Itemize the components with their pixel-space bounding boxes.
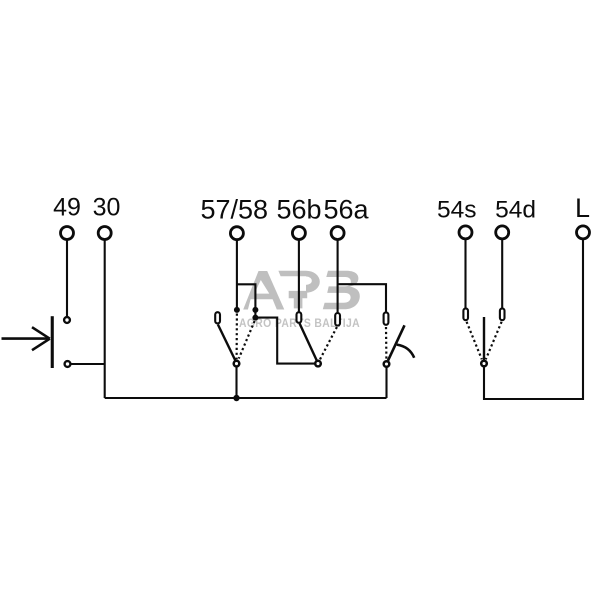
pivot2 ring [315, 361, 321, 367]
svg-text:54d: 54d [495, 197, 536, 224]
wire 56b drop [298, 240, 300, 312]
terminal circle 56a [331, 227, 344, 240]
watermark logo letter B [323, 271, 360, 310]
watermark logo letter A bottom gap [248, 299, 277, 309]
wire bottom bus [105, 397, 387, 399]
wire pivot3 to bus [385, 368, 387, 399]
svg-text:L: L [575, 193, 590, 223]
watermark logo letter A counter [254, 280, 269, 294]
contact pin S3 [384, 312, 389, 324]
svg-text:57/58: 57/58 [201, 195, 269, 225]
switch S1 actuator arrowhead [32, 327, 50, 350]
dotted 56a pin to pivot2 [320, 327, 337, 359]
contact pin 54s [463, 308, 468, 320]
terminal circle 57/58 [230, 227, 243, 240]
pivot1 ring [234, 361, 240, 367]
wire 56a branch [338, 284, 386, 312]
dotted 54d pin to pivot4 [486, 322, 502, 360]
wire 57/58 branch [237, 284, 256, 317]
switch S1 actuator arrow shaft [2, 337, 50, 340]
terminal circle 30 [98, 227, 111, 240]
switch arm 56b to pivot2 [300, 324, 317, 362]
wire pivot4 to L [484, 240, 583, 400]
wire 57/58 drop [236, 240, 238, 310]
svg-text:54s: 54s [437, 197, 477, 224]
wire lower contact to 30 [71, 363, 105, 365]
terminal circle 54d [496, 226, 509, 239]
svg-text:56a: 56a [323, 195, 369, 225]
switch S1 contact upper [64, 317, 70, 323]
junction bus dot [233, 395, 239, 401]
dotted 54s pin to pivot4 [467, 322, 482, 360]
dotted contact 57/58 to pivot1 [236, 314, 238, 360]
wire 30 drop [104, 240, 106, 398]
dotted branch contact to pivot1 [239, 321, 255, 359]
contact pin 56b [297, 312, 302, 323]
junction branch contact dot [252, 307, 258, 313]
pivot4 ring [481, 361, 487, 367]
watermark logo letter P stem [289, 291, 308, 309]
junction 57/58 contact dot [234, 307, 240, 313]
switch arm S1b pivot1 arm [218, 325, 236, 362]
watermark logo letter P bowl [306, 271, 320, 293]
terminal circle L [577, 226, 590, 239]
wire 54s drop [464, 240, 466, 309]
switch S3 return arc [397, 345, 414, 358]
contact pin 56a [335, 313, 340, 326]
wire 56a drop [337, 240, 339, 313]
wire branch to pivot2 [255, 318, 314, 364]
terminal circle 56b [292, 227, 305, 240]
wire 49 drop [66, 240, 68, 316]
switch S4 wiper [483, 317, 485, 360]
svg-text:49: 49 [53, 194, 81, 222]
switch S1 actuator bar [51, 316, 54, 368]
wire pivot1 to bus [235, 367, 237, 398]
switch S1 contact lower [65, 361, 71, 367]
dotted S3 pin to pivot3 [385, 327, 388, 359]
contact pin S2 left [215, 312, 220, 323]
svg-text:56b: 56b [276, 195, 321, 225]
svg-text:30: 30 [93, 194, 121, 222]
terminal circle 49 [61, 227, 74, 240]
junction branch wire dot [252, 315, 258, 321]
switch S3 momentary lever [388, 325, 405, 360]
terminal circle 54s [459, 226, 472, 239]
wire 54d drop [501, 240, 503, 309]
contact pin 54d [500, 308, 505, 320]
pivot3 ring [384, 361, 390, 367]
watermark logo letter P bar [278, 271, 306, 277]
watermark logo letter A [243, 271, 284, 310]
